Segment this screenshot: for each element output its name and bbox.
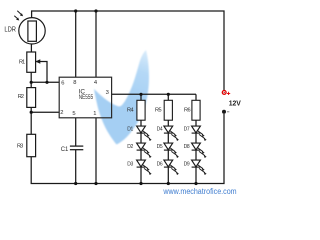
svg-text:D3: D3 [127,161,133,167]
svg-text:www.mechatrofice.com: www.mechatrofice.com [162,187,236,196]
svg-text:5: 5 [72,111,75,117]
svg-text:LDR: LDR [4,24,16,33]
svg-text:R3: R3 [17,143,23,149]
svg-text:R2: R2 [18,94,24,100]
svg-text:D6: D6 [157,161,163,167]
svg-text:NE555: NE555 [79,94,94,101]
svg-text:1: 1 [93,111,96,117]
svg-text:D1: D1 [127,127,133,133]
svg-text:D8: D8 [184,144,190,150]
svg-text:6: 6 [61,81,64,87]
svg-text:D5: D5 [157,144,163,150]
svg-text:D2: D2 [127,144,133,150]
svg-text:2: 2 [60,110,63,116]
svg-text:C1: C1 [61,147,69,153]
svg-text:D4: D4 [157,127,163,133]
svg-text:D9: D9 [184,161,190,167]
svg-text:D7: D7 [184,127,190,133]
svg-text:3: 3 [106,90,109,96]
svg-text:R4: R4 [127,108,134,114]
svg-text:R5: R5 [155,108,162,114]
svg-text:R1: R1 [19,59,25,65]
svg-text:8: 8 [73,80,76,86]
svg-text:12V: 12V [229,98,241,107]
svg-text:R6: R6 [184,108,191,114]
